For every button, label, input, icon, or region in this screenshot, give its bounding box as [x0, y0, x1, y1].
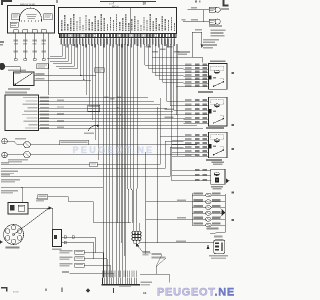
- cluster pin row 9: [29, 124, 198, 126]
- mid bus vertical x160: [159, 98, 161, 136]
- relay K2 input wires: [184, 99, 209, 123]
- switch pin 2: [23, 30, 28, 61]
- EEC connector strip J1: [60, 34, 177, 38]
- coil pack converge arrow: [134, 243, 151, 256]
- wire ORG-YEL to fuel pump: [188, 7, 210, 10]
- wire TFI pin 1: [62, 236, 96, 253]
- label on-board fuel pump controller: [210, 30, 225, 37]
- wire TFI pin 2: [62, 241, 94, 258]
- switch pin 1: [13, 30, 18, 61]
- EEC harness vertical wires to bottom connector: [103, 44, 126, 278]
- ignition switch assembly S1: [8, 3, 55, 33]
- inertia switch M2: [215, 19, 220, 24]
- fuel injector INJ2: [192, 199, 225, 204]
- TFI test connector label: [38, 195, 48, 200]
- wire engine ground: [1, 147, 184, 177]
- label auxiliary fuel pump sender: [1, 171, 18, 175]
- bulkhead connector strip J3: [101, 271, 140, 286]
- cluster pin row 5: [24, 110, 173, 112]
- wire GRN to comb: [62, 271, 114, 277]
- ignition coil T1: [8, 203, 28, 215]
- relay K3 input wires: [172, 134, 209, 156]
- injector bank bracket: [191, 193, 193, 226]
- switch position label COLD START: [12, 14, 20, 20]
- cluster pin row 6: [22, 113, 179, 115]
- wire TAN to inertia switch: [182, 19, 210, 22]
- fuel injector INJ1: [192, 193, 225, 198]
- fuel pump connector label: [209, 7, 215, 12]
- wire TFI test to harness: [48, 197, 131, 223]
- fuel injector INJ6: [192, 223, 225, 228]
- ignition module top label: [8, 70, 26, 72]
- splice label 1: [60, 250, 104, 278]
- switch pin 3: [32, 30, 37, 61]
- ballast coil pack: [132, 223, 141, 243]
- bus wire labels: [104, 96, 122, 99]
- solenoid pointer arrow: [226, 178, 230, 183]
- idle speed control valve Y1: [214, 240, 225, 254]
- feed bus vertical: [146, 107, 157, 254]
- wire coil secondary to distributor: [28, 206, 53, 229]
- A/C WOT relay K3: [208, 132, 227, 157]
- junction dot on cluster row 2: [120, 114, 122, 116]
- fuse panel label: [37, 64, 48, 69]
- wire gauge G2 to harness: [30, 154, 197, 156]
- bulkhead grommet: [0, 63, 5, 70]
- EEC module top label: [112, 6, 119, 8]
- sender plug P1: [2, 138, 8, 144]
- EEC pin name column labels: [61, 14, 175, 31]
- fuel injector INJ4: [192, 211, 225, 216]
- wire GRN-YEL down to relay: [192, 29, 202, 63]
- splice label 2: [60, 257, 108, 278]
- watermark (bottom right): [157, 287, 235, 299]
- label TFI CONN: [52, 248, 62, 250]
- margin arrow left: [0, 240, 3, 243]
- label in-tank fuel pump: [203, 39, 219, 48]
- rotor wire: [14, 209, 49, 235]
- cluster pin row 1: [23, 97, 148, 99]
- switch pin 4: [41, 30, 46, 61]
- TFI connector J2: [53, 230, 62, 247]
- solenoid top label: [212, 161, 225, 165]
- gauge G2: [24, 151, 31, 158]
- svg-text:EEC-IV: EEC-IV: [112, 6, 119, 8]
- svg-text:81508: 81508: [13, 292, 19, 294]
- A/C compressor solenoid L1: [211, 169, 225, 184]
- wire gauge G1 to harness: [30, 144, 197, 146]
- injector feed wire 2: [146, 217, 192, 219]
- cluster pin row 7: [27, 117, 186, 119]
- relay K1 input wires: [184, 64, 209, 87]
- solenoid input wires: [172, 169, 211, 181]
- label below injectors: [214, 236, 223, 238]
- relay feed verticals: [172, 44, 178, 181]
- ignition module U2: [14, 72, 35, 86]
- wire to idle speed control: [140, 240, 214, 243]
- label TACH TEST: [36, 198, 47, 202]
- svg-text:10: 10: [143, 291, 147, 295]
- label FUEL PUMP RELAY: [206, 127, 224, 129]
- idle wire arrow: [207, 244, 210, 249]
- label DISTRIBUTOR: [6, 247, 20, 249]
- cluster pin row 2: [26, 100, 155, 102]
- label circuit breaker panel: [1, 190, 18, 194]
- wire link between pump circuits: [202, 10, 204, 22]
- label C/B radio noise: [198, 91, 213, 93]
- label EEC POWER RELAY: [210, 60, 226, 62]
- svg-text:PEUGEOT.NE: PEUGEOT.NE: [73, 145, 155, 155]
- faint watermark (center): [73, 145, 155, 155]
- cluster pin row 3: [23, 104, 161, 106]
- switch center label IGNITION MODULE: [26, 14, 37, 19]
- fuel pump motor M1: [215, 7, 229, 12]
- cluster pin row 4: [28, 106, 168, 108]
- cluster pin row 8: [24, 120, 192, 122]
- label exhaust heat control: [8, 159, 28, 163]
- label ALT FUEL PUMP: [209, 25, 222, 27]
- fuel injector INJ3: [192, 205, 225, 210]
- wire grommet to ignition module: [5, 67, 20, 73]
- label YEL-LGN connector: [178, 51, 190, 55]
- alternator splice labels: [152, 253, 167, 274]
- harness verticals center-left: [81, 44, 99, 160]
- low oil relay module: [88, 105, 100, 112]
- wire sender to gauge G2: [7, 154, 24, 156]
- label solenoid: [211, 186, 223, 190]
- label grd wire drl unit: [8, 88, 30, 90]
- label relay K3: [206, 159, 222, 161]
- wire oxygen sensor: [1, 141, 184, 168]
- label port injectors: [207, 228, 219, 230]
- label charging circuit breaker: [1, 179, 20, 183]
- ground run wire: [140, 274, 169, 282]
- instrument cluster module U3: [5, 95, 39, 131]
- wire battery feed: [1, 187, 103, 203]
- connector strip note: [119, 281, 152, 287]
- converge arrows at bus: [221, 209, 226, 217]
- distributor: [4, 225, 24, 245]
- label haz batt sta: [5, 92, 27, 94]
- EEC power relay K1: [208, 64, 227, 90]
- junction dot on cluster row: [117, 107, 119, 109]
- switch position label KEY POWER: [44, 14, 52, 20]
- EEC harness wires to coil pack: [127, 44, 137, 223]
- label idle speed control: [209, 255, 228, 259]
- gauge G1: [15, 138, 30, 148]
- switch sub-box LOW FUEL: [10, 22, 18, 27]
- EEC pin wire labels: [60, 38, 174, 48]
- injector feed wire 1: [146, 199, 192, 201]
- note box no production: [60, 140, 89, 144]
- wire A/C clutch: [1, 136, 184, 165]
- wire bus at y57: [152, 56, 192, 58]
- wire into relay K1 row 7: [176, 86, 184, 88]
- wire sender to gauge G1: [7, 141, 24, 145]
- arrow on pump feed wire: [201, 45, 204, 49]
- wire from switch to cluster: [48, 33, 50, 95]
- splice label 3: [60, 263, 111, 278]
- sender plug P2: [2, 152, 8, 158]
- cluster pin row 10: [25, 127, 203, 129]
- center verticals: [118, 44, 124, 256]
- wire from module lower: [34, 78, 91, 81]
- wire DRL RED from module: [34, 73, 96, 76]
- timing advance curved arrow: [84, 124, 99, 134]
- EEC-IV processor module U1: [59, 8, 177, 34]
- injector return bus: [210, 194, 225, 233]
- mid-field wire labels: [165, 108, 174, 118]
- inertia switch connector label: [209, 19, 215, 24]
- svg-text:PEUGEOT.NE: PEUGEOT.NE: [157, 287, 234, 299]
- svg-text:MAIN SW DETAIL: MAIN SW DETAIL: [20, 3, 35, 6]
- branch wires to fuse panel: [47, 44, 78, 69]
- harness verticals to relays: [145, 44, 184, 115]
- fuse link label box: [95, 68, 104, 73]
- inline connector on A/C wire: [90, 162, 98, 166]
- fuel injector INJ5: [192, 217, 225, 222]
- fuel pump relay K2: [208, 97, 227, 126]
- svg-text:10: 10: [143, 2, 147, 6]
